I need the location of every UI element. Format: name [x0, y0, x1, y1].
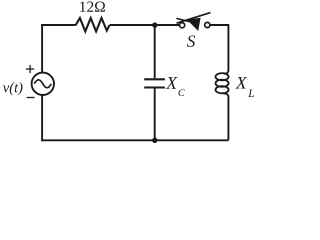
inductor top hook [224, 70, 229, 74]
label XL [235, 77, 247, 89]
wire: top right from switch to right corner [210, 24, 229, 26]
node junction dot top of capacitor branch [152, 22, 157, 27]
inductor bottom hook [223, 93, 228, 96]
label 12 ohm [80, 2, 105, 12]
voltage source v(t) circle [32, 73, 54, 95]
switch closing-arrow arrowhead [187, 18, 201, 31]
inductor XL coil loop 3 [216, 86, 229, 93]
capacitor XC bottom plate [144, 86, 165, 88]
wire: left vertical upper from top corner to source [41, 24, 43, 73]
wire: top middle from resistor to switch left terminal [110, 24, 180, 26]
switch closing-arrow shaft [176, 18, 190, 22]
switch S right terminal circle [205, 22, 210, 27]
label XC [166, 77, 178, 89]
inductor XL coil loop 2 [216, 80, 229, 87]
resistor R 12ohm zigzag [76, 18, 110, 31]
node junction dot bottom of capacitor branch [152, 138, 157, 143]
plus polarity sign [26, 65, 34, 73]
wire: bottom horizontal [41, 139, 228, 141]
switch blade line [177, 13, 211, 24]
wire: capacitor branch lower [154, 89, 156, 141]
wire: capacitor branch upper [154, 25, 156, 78]
capacitor XC top plate [144, 78, 165, 80]
switch S left terminal circle [180, 23, 185, 28]
wire: left vertical lower from source to bottom corner [41, 94, 43, 141]
wire: right vertical upper to inductor [227, 24, 229, 71]
inductor XL coil loop 1 [216, 73, 229, 80]
label S [187, 35, 195, 46]
minus polarity sign [27, 97, 35, 99]
wire: top left horizontal from source branch to resistor [41, 24, 75, 26]
voltage source sine wave [34, 80, 51, 88]
label v(t) [3, 82, 22, 95]
